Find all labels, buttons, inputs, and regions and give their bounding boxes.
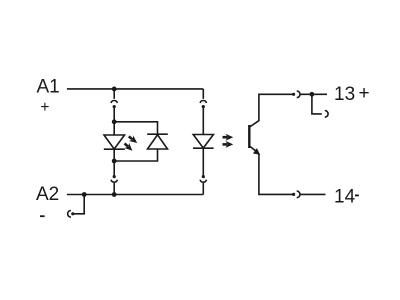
plug contact socket (female) top of LED branch [111,101,117,103]
plug contact socket (female) of 14 output [297,191,300,198]
phototransistor emitter arrowhead [253,148,260,155]
status LED D1 cathode bar [104,148,125,150]
node top of parallel diodes [112,119,117,124]
wire input branch upper stub [113,89,115,99]
optocoupler light arrow lower [223,141,234,148]
wire parallel loop top [114,122,157,134]
wire socket to A2 rail [113,183,115,195]
svg-text:14: 14 [334,187,356,208]
svg-text:+: + [359,83,370,104]
node 13 rail at stub [310,92,315,97]
plug contact pin (male) of 14 output [292,193,295,196]
wire node to lower pin [113,161,115,176]
wire through status LED [113,122,115,161]
phototransistor emitter lead [250,146,256,151]
wire 13 test stub [312,94,322,114]
plug contact pin (male) bottom of opto branch [202,175,205,178]
plug contact socket (female) of A2 stub [68,211,71,218]
node A2 rail at test stub [82,192,87,197]
phototransistor collector lead [250,94,293,127]
plug contact pin (male) top of LED branch [113,105,116,108]
plug contact pin (male) bottom of LED branch [113,175,116,178]
status LED light arrow upper [127,134,140,146]
plug contact socket (female) of 13 stub [325,111,328,118]
plug contact socket (female) top of opto branch [200,101,206,103]
wire A2 test stub [73,195,84,214]
phototransistor base bar [248,125,250,148]
plug contact pin (male) top of opto branch [202,105,205,108]
optocoupler LED cathode bar [193,147,214,149]
wire socket to A2 rail right corner [202,183,204,195]
protection diode D2 triangle [148,135,168,149]
optocoupler light arrow upper [223,134,234,141]
wire optocoupler LED to lower pin [202,148,204,176]
polarity - of A2 [40,215,45,217]
svg-text:+: + [40,99,49,116]
wire parallel loop bottom [114,149,157,161]
wire socket to 14 terminal [300,193,326,195]
plug contact socket (female) bottom of LED branch [111,180,117,182]
plug contact socket (female) bottom of opto branch [200,180,206,182]
wire emitter down to 14 rail [259,154,293,195]
plug contact pin (male) of 13 output [292,93,295,96]
wire A1 top rail [67,88,203,90]
node at A1 rail / input branch [112,87,117,92]
wire optocoupler branch top [202,89,204,99]
status LED light arrow lower [122,141,135,153]
svg-text:13: 13 [334,84,355,105]
optocoupler LED triangle [193,135,213,149]
status LED D1 triangle [104,135,125,149]
node A2 rail at LED branch [112,192,117,197]
polarity - of 14 [355,194,359,196]
wire pin to optocoupler LED [202,107,204,135]
wire pin to node [113,107,115,122]
protection diode D2 cathode bar [147,133,168,135]
wire socket to 13 terminal [300,93,327,95]
node bottom of parallel diodes [112,159,117,164]
plug contact socket (female) of 13 output [297,91,300,98]
plug contact pin (male) of A2 stub [71,212,74,215]
svg-text:A2: A2 [36,184,59,205]
wire A2 bottom rail [67,194,203,196]
svg-text:A1: A1 [37,77,60,98]
